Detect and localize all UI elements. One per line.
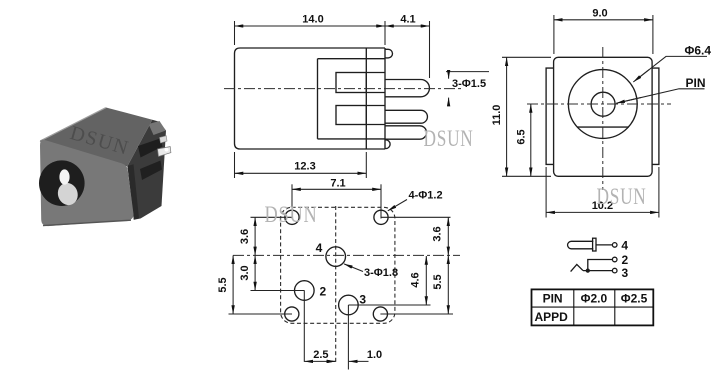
photo solder lug fin 2 — [140, 161, 162, 181]
side view pin A (middle) — [385, 80, 429, 97]
dimension 12.3 extension lines — [234, 152, 236, 178]
svg-text:12.3: 12.3 — [294, 161, 315, 173]
svg-text:3.6: 3.6 — [432, 226, 444, 241]
schematic pin 2 terminal circle — [612, 257, 617, 262]
svg-text:PIN: PIN — [686, 76, 706, 90]
svg-text:3.0: 3.0 — [239, 265, 251, 280]
footprint pin 4 pad — [326, 247, 346, 267]
label 4-phi1.2 leader — [388, 200, 407, 211]
schematic switch contact caret — [571, 264, 583, 271]
footprint hole bottom-left — [285, 307, 299, 321]
photo front face — [40, 140, 134, 226]
svg-text:APPD: APPD — [535, 310, 569, 324]
svg-text:9.0: 9.0 — [592, 7, 607, 19]
svg-text:3.6: 3.6 — [239, 229, 251, 244]
svg-text:4.6: 4.6 — [410, 272, 422, 287]
svg-text:3-Φ1.5: 3-Φ1.5 — [452, 78, 486, 90]
svg-text:PIN: PIN — [543, 291, 563, 305]
footprint pin 2 pad — [295, 281, 315, 301]
dimension 3.6 right line — [447, 217, 449, 255]
schematic pin 4 wire — [596, 244, 612, 246]
label PIN leader — [625, 89, 705, 101]
table column divider 2 — [614, 289, 616, 325]
schematic pin 2 wire — [588, 260, 613, 271]
table column divider 1 — [573, 289, 575, 325]
svg-text:4-Φ1.2: 4-Φ1.2 — [409, 190, 443, 202]
side view top lug bump — [385, 49, 393, 58]
footprint hole top-left — [285, 210, 299, 224]
schematic pin 4 terminal circle — [612, 243, 617, 248]
footprint pin 3 drop line — [347, 305, 349, 370]
photo terminal block top face — [149, 121, 166, 135]
front view horizontal centerline — [527, 103, 671, 105]
dimension 9.0 line — [554, 19, 653, 21]
front view drawing (top right) — [491, 7, 711, 217]
svg-text:1.0: 1.0 — [367, 349, 382, 361]
photo body right edge shadow strip — [128, 164, 140, 220]
svg-text:4: 4 — [621, 239, 628, 253]
photo pin tip small — [160, 136, 168, 143]
dimension 10.2 extension lines — [545, 167, 547, 218]
front view left ear — [546, 68, 554, 164]
label 3-phi1.5 shelf — [446, 71, 489, 73]
footprint right extension lines — [381, 216, 451, 218]
svg-text:2: 2 — [319, 285, 326, 299]
side view bottom lug bump — [385, 140, 390, 149]
dimension 2.5 line — [304, 360, 335, 362]
side view centerline — [224, 88, 462, 90]
footprint left extension lines — [251, 216, 293, 218]
footprint vertical dashed line through pin 4 — [335, 206, 337, 364]
dimension 11.0 extension lines — [502, 56, 551, 58]
footprint view drawing (bottom middle) — [217, 177, 460, 369]
dimension 9.0 extension lines — [553, 15, 555, 54]
dimension 1.0 arrows — [327, 360, 336, 362]
svg-text:5.5: 5.5 — [432, 274, 444, 289]
schematic symbol (bottom right) — [568, 238, 617, 273]
dimension 4.1 extension line — [429, 21, 431, 78]
footprint horizontal centerline — [233, 254, 460, 256]
dimension 4.6 line — [425, 256, 427, 305]
front view chord line — [577, 126, 629, 128]
footprint hole bottom-right — [373, 307, 387, 321]
side view inner wall top — [318, 58, 386, 60]
side view flange right edge — [384, 48, 386, 149]
svg-text:3: 3 — [622, 266, 629, 280]
photo top/front ridge shade — [40, 141, 128, 166]
svg-text:Φ2.5: Φ2.5 — [621, 291, 648, 305]
schematic junction dot — [586, 269, 589, 272]
dimension 5.5 right line — [447, 255, 449, 314]
side view slot 2 — [336, 106, 366, 125]
svg-text:DSUN: DSUN — [265, 202, 318, 227]
svg-text:2.5: 2.5 — [313, 349, 328, 361]
footprint pin 2 drop line — [303, 291, 305, 362]
photo front face bottom edge shade — [43, 220, 131, 225]
photo terminal block body — [128, 120, 167, 220]
svg-text:3-Φ1.8: 3-Φ1.8 — [364, 267, 398, 279]
side view body outline — [235, 48, 386, 149]
side view inner wall vertical — [317, 59, 319, 139]
footprint pin 3 pad — [339, 295, 359, 315]
photo pin tip bright — [158, 147, 171, 157]
schematic pin 3 terminal circle — [612, 268, 617, 273]
photo barrel opening — [39, 160, 85, 206]
front view barrel circle phi6.4 — [568, 70, 637, 139]
dimension 14.0 line — [235, 25, 386, 27]
schematic pin 3 wire — [583, 270, 612, 272]
svg-text:Φ6.4: Φ6.4 — [685, 44, 712, 58]
svg-text:6.5: 6.5 — [516, 129, 528, 144]
table row divider — [532, 306, 654, 308]
svg-text:11.0: 11.0 — [491, 105, 503, 126]
svg-text:3: 3 — [359, 293, 366, 307]
dimension 7.1 line — [292, 188, 381, 190]
side view slot 2 channel lines — [366, 105, 385, 107]
svg-text:14.0: 14.0 — [302, 14, 323, 26]
front view vertical centerline — [602, 47, 604, 190]
photo top face left edge highlight — [41, 108, 106, 141]
label 3-phi1.5 top arrow — [448, 72, 450, 79]
side view pin C — [385, 126, 427, 139]
svg-text:5.5: 5.5 — [217, 277, 229, 292]
svg-text:DSUN: DSUN — [424, 126, 474, 151]
side view drawing — [224, 14, 489, 178]
label phi6.4 leader — [638, 56, 707, 78]
side view slot 1 — [336, 73, 366, 93]
dimension 10.2 line — [546, 211, 659, 213]
front view body — [554, 57, 653, 176]
photo inner cone lower crescent — [55, 180, 81, 207]
dimension 12.3 line — [235, 172, 367, 174]
photo solder lug fin 1 — [138, 139, 163, 158]
front view right ear — [652, 68, 659, 164]
footprint body dashed outline — [281, 207, 395, 323]
dimension 6.5 line — [530, 104, 532, 176]
photo center pin highlight — [59, 169, 69, 184]
dimension 3.0 left line — [254, 255, 256, 290]
side view slot 1 channel lines — [366, 72, 385, 74]
svg-text:DSUN: DSUN — [597, 184, 647, 209]
side view pin B — [385, 110, 427, 123]
side view body/flange boundary (12.3 edge) — [365, 48, 367, 149]
schematic pin 4 barrel — [568, 241, 594, 249]
photo pin glare — [165, 148, 169, 152]
svg-text:7.1: 7.1 — [330, 177, 345, 189]
dimension 11.0 line — [506, 57, 508, 176]
side view inner wall bottom — [318, 138, 386, 140]
label 3-phi1.5 bottom arrow — [448, 98, 450, 106]
svg-text:4: 4 — [316, 241, 323, 255]
dimension 4.1 line — [385, 25, 430, 27]
svg-text:4.1: 4.1 — [400, 14, 415, 26]
dimension 14.0 extension lines — [234, 21, 236, 45]
front view pin circle — [591, 92, 615, 116]
photo: DC jack 3D product view — [39, 108, 171, 227]
table outer border — [532, 289, 654, 325]
spec table — [532, 289, 654, 325]
label 3-phi1.8 leader — [344, 264, 363, 272]
footprint hole top-right — [374, 210, 388, 224]
dimension 7.1 extension lines — [291, 184, 293, 218]
dimension 5.5 left line — [232, 255, 234, 314]
svg-text:Φ2.0: Φ2.0 — [581, 291, 608, 305]
schematic pin 4 flange bar — [593, 238, 596, 251]
photo top face — [40, 108, 152, 167]
dimension 3.6 left line — [254, 217, 256, 255]
